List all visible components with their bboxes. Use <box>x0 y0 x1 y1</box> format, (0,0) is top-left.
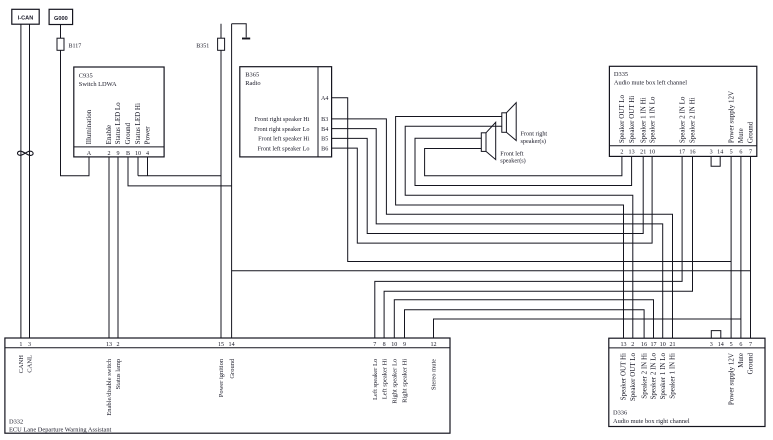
svg-text:Enable/disable switch: Enable/disable switch <box>106 358 113 416</box>
svg-text:B365: B365 <box>245 71 259 78</box>
svg-text:G000: G000 <box>54 16 68 22</box>
radio B365 <box>240 67 332 157</box>
pin numbers and labels D335 (2 13 21 10 17 16 3 14 5 6 7) <box>618 91 755 156</box>
svg-text:10: 10 <box>135 151 141 157</box>
svg-text:2: 2 <box>107 151 110 157</box>
pin numbers and labels C935 (A 2 9 B 10 4) <box>85 102 152 157</box>
svg-text:B117: B117 <box>69 43 82 49</box>
wire C935 pin B (Ground) to ground line <box>128 157 232 186</box>
svg-text:Power ignition: Power ignition <box>218 358 225 397</box>
svg-text:Mute: Mute <box>737 353 745 368</box>
svg-text:4: 4 <box>146 151 149 157</box>
wire C935 pin 2 to D332 pin 13 <box>108 157 110 338</box>
svg-text:3: 3 <box>710 150 713 156</box>
svg-text:9: 9 <box>116 151 119 157</box>
svg-text:Speaker 1 IN Hi: Speaker 1 IN Hi <box>669 353 677 399</box>
fuse B351 <box>196 38 224 50</box>
wire C935 pins 10 and 4 to fused supply B351 <box>138 157 221 176</box>
svg-text:Speaker 1 IN Hi: Speaker 1 IN Hi <box>639 97 647 143</box>
svg-text:Stereo mute: Stereo mute <box>431 359 438 390</box>
svg-text:15: 15 <box>218 342 224 348</box>
wire front left speaker Lo to D335 pin 2 <box>425 149 622 176</box>
wire D332 pin 9 (right speaker Hi) to D336 pin 16 <box>405 310 645 338</box>
svg-text:B5: B5 <box>321 137 328 143</box>
svg-text:ECU Lane Departure Warning Ass: ECU Lane Departure Warning Assistant <box>9 427 112 434</box>
svg-text:9: 9 <box>403 342 406 348</box>
svg-text:Enable: Enable <box>105 125 113 144</box>
svg-text:I-CAN: I-CAN <box>18 16 34 22</box>
svg-text:Front left speaker Hi: Front left speaker Hi <box>258 136 310 143</box>
svg-text:16: 16 <box>689 150 695 156</box>
svg-text:A4: A4 <box>321 96 328 102</box>
svg-text:Illumination: Illumination <box>85 109 93 144</box>
wire D332 pin 8 (left speaker Hi) to D335 pin 16 <box>384 156 692 338</box>
svg-text:D336: D336 <box>613 410 627 417</box>
svg-text:Status LED Lo: Status LED Lo <box>114 102 122 144</box>
svg-text:Status LED Hi: Status LED Hi <box>134 103 142 144</box>
wire fuse B117 to C935 pin A (Illumination) <box>61 50 90 176</box>
svg-text:7: 7 <box>749 342 752 348</box>
svg-text:Speaker 1 IN Lo: Speaker 1 IN Lo <box>648 96 656 143</box>
wire radio B3 (front right Hi) to D336 pin 21 <box>332 119 673 338</box>
jumper D335 pins 3 to 14 <box>711 156 720 166</box>
svg-text:C935: C935 <box>79 72 93 79</box>
svg-text:13: 13 <box>106 342 112 348</box>
svg-text:Speaker OUT Hi: Speaker OUT Hi <box>620 353 628 400</box>
wire radio B4 (front right Lo) to D336 pin 10 <box>332 129 663 339</box>
svg-text:CANH: CANH <box>18 355 25 374</box>
svg-text:10: 10 <box>660 342 666 348</box>
svg-text:13: 13 <box>629 150 635 156</box>
ground symbol <box>232 24 251 39</box>
wire CANL (I-CAN to D332 pin 3) <box>29 24 31 338</box>
svg-text:B4: B4 <box>321 127 328 133</box>
svg-text:Audio mute box left channel: Audio mute box left channel <box>614 80 687 87</box>
svg-text:Power supply 12V: Power supply 12V <box>727 353 735 405</box>
svg-text:2: 2 <box>116 342 119 348</box>
wire D332 pin 12 (stereo mute) to mute bus <box>434 319 741 338</box>
speaker front left <box>481 122 525 164</box>
wire power supply 12V D335 pin 5 to D336 pin 5 <box>730 156 732 338</box>
wire D332 pin 10 (right speaker Lo) to D336 pin 17 <box>394 300 653 338</box>
svg-text:10: 10 <box>391 342 397 348</box>
svg-text:D335: D335 <box>614 71 628 78</box>
svg-text:Front right: Front right <box>521 131 548 138</box>
svg-text:2: 2 <box>631 342 634 348</box>
svg-text:Power supply 12V: Power supply 12V <box>727 91 735 143</box>
svg-text:Front left speaker Lo: Front left speaker Lo <box>257 145 309 152</box>
wire D332 pin 7 (left speaker Lo) to D335 pin 17 <box>375 156 682 338</box>
svg-text:21: 21 <box>669 342 675 348</box>
jumper D336 pins 3 to 14 <box>711 331 721 339</box>
svg-text:D332: D332 <box>9 418 23 425</box>
svg-text:5: 5 <box>730 150 733 156</box>
svg-text:14: 14 <box>717 150 723 156</box>
svg-text:B3: B3 <box>321 117 328 123</box>
twisted pair symbol <box>17 151 33 155</box>
wire C935 pin 9 to D332 pin 2 <box>117 157 119 338</box>
svg-text:Front right speaker Hi: Front right speaker Hi <box>255 116 310 123</box>
svg-text:1: 1 <box>19 342 22 348</box>
svg-text:B: B <box>126 151 130 157</box>
wire radio A4 to power supply 12V bus <box>332 98 731 262</box>
svg-text:Speaker OUT Lo: Speaker OUT Lo <box>618 95 626 144</box>
svg-text:Front left: Front left <box>500 150 523 157</box>
svg-text:Speaker 2 IN Hi: Speaker 2 IN Hi <box>689 97 697 143</box>
svg-text:Radio: Radio <box>245 80 260 87</box>
svg-text:16: 16 <box>641 342 647 348</box>
svg-text:Left speaker Lo: Left speaker Lo <box>372 359 379 400</box>
wire front right speaker Hi to D336 pin 13 <box>396 117 624 339</box>
svg-text:Speaker 2 IN Lo: Speaker 2 IN Lo <box>678 96 686 143</box>
wire ground D335 pin 7 to D336 pin 7 <box>750 156 752 338</box>
svg-text:Mute: Mute <box>737 128 745 143</box>
wire radio B5 (front left Hi) to D335 pin 21 <box>332 138 644 233</box>
svg-text:7: 7 <box>373 342 376 348</box>
ECU lane departure warning assistant D332 <box>5 338 450 434</box>
svg-text:Speaker 2 IN Lo: Speaker 2 IN Lo <box>650 353 658 400</box>
wire front right speaker Lo to D336 pin 2 <box>405 126 633 338</box>
svg-text:13: 13 <box>620 342 626 348</box>
switch C935 (Switch LDWA) <box>74 67 164 157</box>
connector I-CAN <box>12 9 39 24</box>
svg-text:Right speaker Hi: Right speaker Hi <box>402 359 409 403</box>
svg-text:Right speaker Lo: Right speaker Lo <box>392 359 399 404</box>
svg-text:Front right speaker Lo: Front right speaker Lo <box>254 126 310 133</box>
svg-text:10: 10 <box>649 150 655 156</box>
svg-text:Ground: Ground <box>124 122 132 144</box>
pin numbers and labels D336 (13 2 16 17 10 21 3 14 5 6 7) <box>620 342 755 405</box>
svg-text:B6: B6 <box>321 146 328 152</box>
svg-text:14: 14 <box>229 342 235 348</box>
svg-text:Left speaker Hi: Left speaker Hi <box>381 359 388 400</box>
wire ground bus to mute boxes pin 7 <box>232 270 751 272</box>
audio mute box right channel D336 <box>609 338 765 426</box>
wire radio B6 (front left Lo) to D335 pin 10 <box>332 148 652 243</box>
svg-text:17: 17 <box>650 342 656 348</box>
svg-text:Ground: Ground <box>747 121 755 143</box>
svg-text:Ground: Ground <box>229 358 236 379</box>
svg-text:Power: Power <box>144 126 152 145</box>
svg-text:21: 21 <box>640 150 646 156</box>
fuse B117 <box>57 38 81 50</box>
svg-text:Speaker 1 IN Lo: Speaker 1 IN Lo <box>659 353 667 400</box>
speaker front right <box>502 103 548 145</box>
svg-text:14: 14 <box>718 342 724 348</box>
svg-text:B351: B351 <box>196 43 209 49</box>
svg-text:Speaker OUT Lo: Speaker OUT Lo <box>629 353 637 402</box>
audio mute box left channel D335 <box>609 66 756 156</box>
svg-text:3: 3 <box>28 342 31 348</box>
wire supply stub above fuse B351 <box>220 24 222 39</box>
svg-text:17: 17 <box>679 150 685 156</box>
wire fuse B351 to D332 pin 15 (Power ignition) <box>220 50 222 338</box>
svg-text:Ground: Ground <box>747 353 755 375</box>
svg-text:Audio mute box right channel: Audio mute box right channel <box>613 418 690 425</box>
svg-text:3: 3 <box>710 342 713 348</box>
svg-text:6: 6 <box>739 150 742 156</box>
svg-text:5: 5 <box>730 342 733 348</box>
svg-text:2: 2 <box>620 150 623 156</box>
svg-text:speaker(s): speaker(s) <box>521 138 546 145</box>
svg-text:7: 7 <box>749 150 752 156</box>
pin numbers and labels radio B365 (A4 B3 B4 B5 B6) <box>254 96 328 152</box>
wire CANH (I-CAN to D332 pin 1) <box>20 24 22 338</box>
wire front left speaker Hi to D335 pin 13 <box>415 138 632 185</box>
svg-text:Status lamp: Status lamp <box>115 359 122 390</box>
svg-text:Speaker OUT Hi: Speaker OUT Hi <box>628 96 636 143</box>
svg-text:Speaker 2 IN Hi: Speaker 2 IN Hi <box>640 353 648 399</box>
svg-text:8: 8 <box>383 342 386 348</box>
svg-text:12: 12 <box>430 342 436 348</box>
svg-text:A: A <box>87 151 92 157</box>
svg-text:CANL: CANL <box>27 355 34 373</box>
wire G000 to fuse B117 <box>60 25 62 39</box>
svg-text:6: 6 <box>739 342 742 348</box>
connector G000 <box>49 9 73 24</box>
svg-text:Switch LDWA: Switch LDWA <box>79 81 117 88</box>
wire ground line to D332 pin 14 (Ground) <box>231 24 233 338</box>
pin numbers and labels D332 (1 3 13 2 15 14 7 8 10 9 12) <box>18 342 438 416</box>
svg-text:speaker(s): speaker(s) <box>500 158 525 165</box>
wire mute D335 pin 6 to D336 pin 6 <box>740 156 742 338</box>
